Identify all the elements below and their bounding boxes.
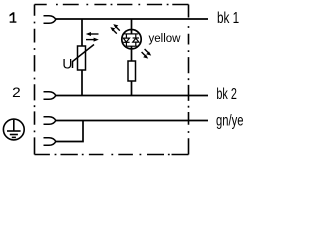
svg-text:U: U	[62, 56, 72, 71]
svg-text:bk 2: bk 2	[216, 86, 237, 103]
svg-text:2: 2	[12, 84, 21, 100]
svg-text:bk 1: bk 1	[217, 10, 239, 27]
svg-text:yellow: yellow	[149, 31, 181, 45]
svg-text:gn/ye: gn/ye	[216, 113, 244, 130]
